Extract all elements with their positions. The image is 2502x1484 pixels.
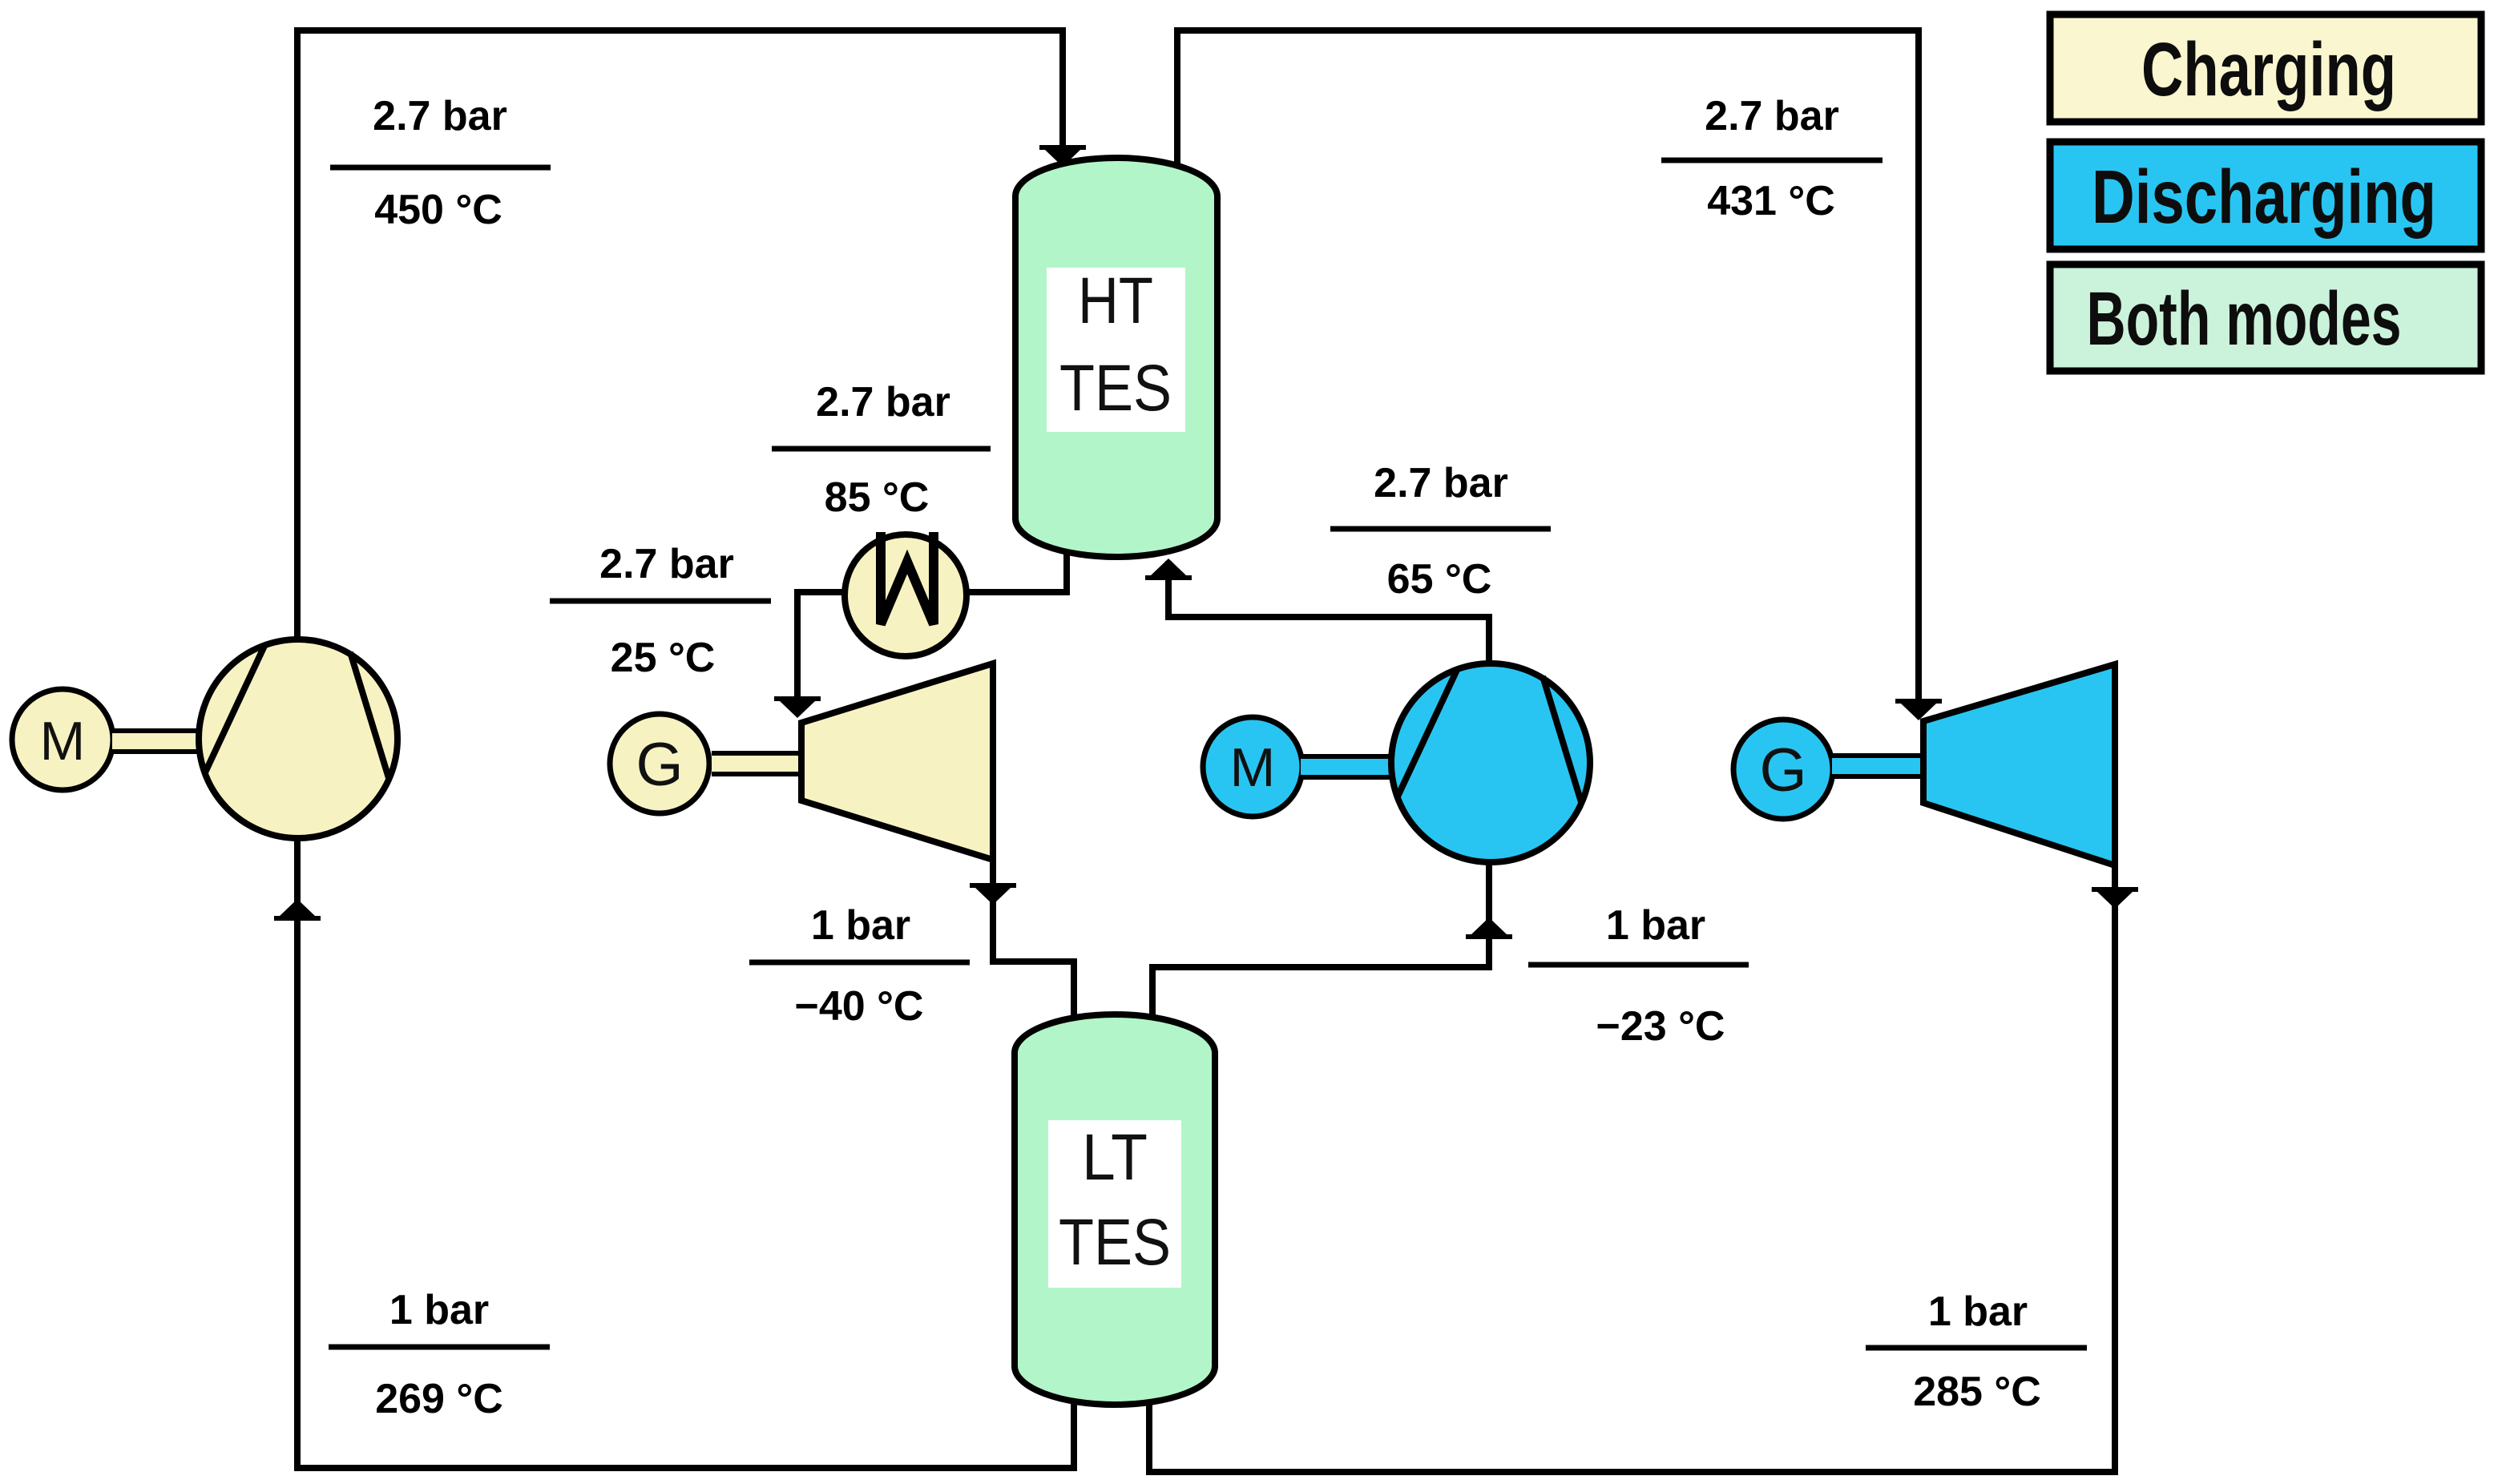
svg-text:2.7 bar: 2.7 bar	[599, 541, 734, 587]
svg-text:85 °C: 85 °C	[825, 474, 930, 521]
LT TES tank	[1015, 1014, 1215, 1405]
svg-text:M: M	[1230, 737, 1276, 798]
svg-text:Both modes: Both modes	[2087, 276, 2402, 361]
shaft M1 to C1	[112, 731, 202, 752]
label: 2.7 bar / 85 °C	[772, 379, 991, 521]
label: 1 bar / −23 °C	[1528, 902, 1749, 1050]
svg-text:1 bar: 1 bar	[811, 902, 910, 949]
arrow: into charging compressor C1 (up)	[274, 899, 321, 921]
svg-text:−23 °C: −23 °C	[1596, 1003, 1725, 1050]
arrow: below discharging turbine T2 (down)	[2092, 887, 2138, 909]
arrow: into discharging turbine T2 inlet (down)	[1895, 699, 1942, 720]
svg-text:M: M	[40, 711, 86, 772]
wire: HT TES top to discharging turbine T2 inlet	[1177, 30, 1919, 709]
label: 1 bar / −40 °C	[749, 902, 970, 1030]
svg-text:HT: HT	[1078, 264, 1153, 337]
svg-text:Charging: Charging	[2141, 27, 2396, 112]
legend: Charging box	[2050, 14, 2481, 122]
HT TES tank	[1015, 158, 1217, 557]
wire: HT TES bottom to heat exchanger to charging turbine T1 inlet	[797, 553, 1067, 713]
svg-text:450 °C: 450 °C	[374, 187, 502, 233]
arrow: into HT TES top (down)	[1039, 145, 1086, 167]
generator G1 (charging)	[610, 714, 709, 813]
svg-text:TES: TES	[1059, 352, 1172, 425]
turbine T2 (discharging)	[1923, 664, 2115, 865]
compressor C2 (discharging)	[1391, 663, 1590, 862]
svg-text:2.7 bar: 2.7 bar	[373, 93, 507, 139]
svg-text:1 bar: 1 bar	[1606, 902, 1705, 949]
svg-text:2.7 bar: 2.7 bar	[1374, 460, 1508, 506]
wire: charging loop hot leg (compressor C1 top to HT TES top)	[297, 30, 1063, 841]
legend: Discharging box	[2050, 142, 2481, 249]
svg-text:−40 °C: −40 °C	[794, 983, 923, 1030]
svg-text:TES: TES	[1059, 1206, 1171, 1279]
shaft G2 to T2	[1832, 756, 1923, 776]
svg-text:431 °C: 431 °C	[1707, 178, 1835, 224]
label: 2.7 bar / 431 °C	[1661, 93, 1883, 224]
arrow: into HT TES bottom (up)	[1145, 559, 1192, 580]
label: 2.7 bar / 25 °C	[550, 541, 771, 681]
label: 2.7 bar / 65 °C	[1330, 460, 1551, 603]
motor M1 (charging)	[12, 689, 113, 790]
arrow: below charging turbine T1 (down)	[970, 883, 1016, 905]
svg-text:G: G	[636, 731, 683, 799]
wire: discharging turbine T2 outlet to LT TES bottom	[1149, 865, 2115, 1472]
wire: discharging compressor C2 outlet to HT TES bottom	[1168, 561, 1489, 663]
shaft G1 to T1	[712, 753, 801, 774]
svg-text:2.7 bar: 2.7 bar	[1705, 93, 1839, 139]
motor M2 (discharging)	[1203, 717, 1302, 817]
legend: Both modes box	[2050, 264, 2481, 371]
svg-text:65 °C: 65 °C	[1387, 556, 1492, 603]
svg-text:269 °C: 269 °C	[375, 1376, 503, 1422]
wire: LT TES top to discharging compressor C2 inlet	[1152, 864, 1489, 1018]
label: 1 bar / 269 °C	[329, 1287, 550, 1422]
arrow: into charging turbine T1 inlet (down)	[774, 696, 821, 718]
svg-text:LT: LT	[1082, 1121, 1148, 1194]
svg-text:25 °C: 25 °C	[611, 635, 716, 681]
turbine T1 (charging)	[801, 663, 993, 860]
heat exchanger HX1	[845, 532, 966, 656]
svg-text:Discharging: Discharging	[2092, 155, 2436, 240]
label: 1 bar / 285 °C	[1866, 1288, 2087, 1415]
svg-text:G: G	[1759, 736, 1806, 805]
svg-text:1 bar: 1 bar	[389, 1287, 489, 1333]
wire: LT TES bottom to charging compressor C1 inlet	[297, 841, 1074, 1468]
generator G2 (discharging)	[1733, 720, 1833, 819]
compressor C1 (charging)	[199, 639, 397, 838]
shaft M2 to C2	[1301, 756, 1392, 777]
svg-text:1 bar: 1 bar	[1928, 1288, 2028, 1335]
arrow: into discharging compressor C2 (up)	[1466, 917, 1512, 939]
label: 2.7 bar / 450 °C	[330, 93, 551, 233]
svg-text:285 °C: 285 °C	[1913, 1369, 2041, 1415]
svg-text:2.7 bar: 2.7 bar	[816, 379, 950, 425]
wire: charging turbine T1 outlet to LT TES top	[993, 860, 1074, 1018]
